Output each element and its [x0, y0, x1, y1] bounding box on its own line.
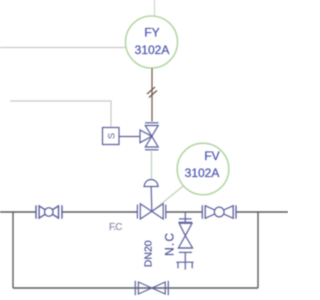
ball valve left — [36, 205, 62, 218]
pneumatic line solenoid to actuator — [151, 151, 153, 180]
svg-text:3102A: 3102A — [185, 166, 220, 180]
electric signal line FY to solenoid valve — [151, 68, 153, 122]
bypass gate valve — [135, 281, 168, 295]
ball valve right — [202, 205, 236, 218]
svg-text:DN20: DN20 — [143, 240, 155, 267]
drain valve N.C (vertical gate valve) — [178, 222, 192, 248]
solenoid 3-way valve — [140, 123, 159, 150]
drain branch line from main — [184, 212, 186, 222]
svg-text:FV: FV — [204, 149, 219, 163]
instrument signal line to FY bubble — [0, 47, 126, 49]
drain branch flange tick — [179, 218, 192, 220]
drain stem — [184, 252, 186, 262]
main process line segment right — [237, 211, 289, 213]
main process line segment 2 — [63, 211, 138, 213]
bypass line right vertical — [257, 212, 259, 288]
electric signal zigzag marks — [147, 87, 157, 98]
drain flange pair — [179, 251, 192, 253]
wire S box to solenoid valve — [119, 136, 140, 138]
svg-text:F.C: F.C — [109, 222, 122, 233]
drain end cap with ticks — [176, 262, 193, 269]
svg-text:S: S — [106, 133, 116, 139]
instrument signal line to solenoid S — [10, 101, 111, 127]
svg-text:N.C: N.C — [163, 232, 177, 256]
signal line FV bubble to control valve — [153, 186, 184, 211]
signal line stub above FY bubble — [154, 0, 156, 17]
bypass line bottom — [13, 287, 258, 289]
actuator stem — [150, 187, 153, 211]
control valve FV body — [137, 204, 165, 219]
solenoid actuator box S — [103, 128, 120, 145]
instrument bubble FY 3102A — [126, 16, 178, 68]
svg-text:3102A: 3102A — [135, 43, 170, 57]
svg-text:FY: FY — [144, 26, 159, 40]
instrument bubble FV 3102A — [177, 143, 229, 195]
diaphragm actuator dome — [143, 180, 158, 187]
bypass line left vertical — [12, 212, 14, 288]
main process line segment 3 — [166, 211, 202, 213]
main process line segment left — [0, 211, 36, 213]
